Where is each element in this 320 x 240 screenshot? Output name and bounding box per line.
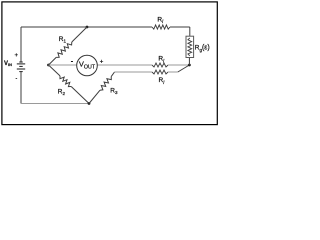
svg-text:-: - [71, 57, 74, 66]
svg-text:+: + [100, 59, 104, 66]
svg-text:-: - [15, 76, 17, 82]
svg-text:+: + [14, 52, 18, 59]
svg-text:Rg(ε): Rg(ε) [195, 45, 210, 53]
